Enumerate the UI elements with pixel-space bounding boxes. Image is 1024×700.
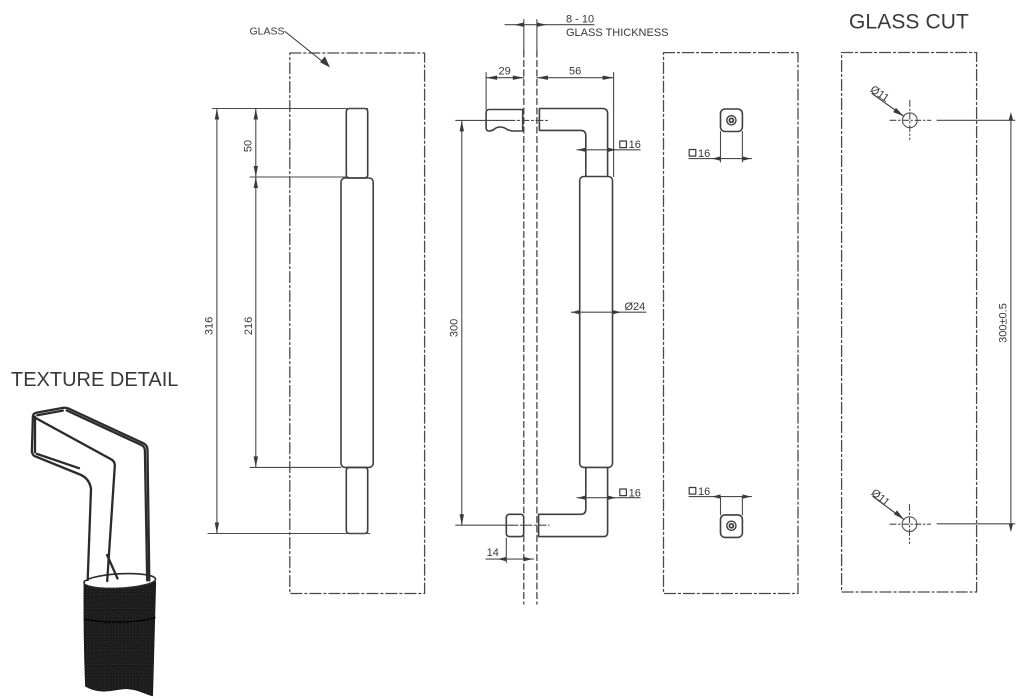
bottom square dim extension lines <box>720 497 722 515</box>
label square 16 (back view top) <box>689 150 696 157</box>
square16 bottom leader <box>577 497 640 499</box>
svg-text:300: 300 <box>448 319 460 337</box>
extension line y=467.4 <box>250 466 341 468</box>
svg-text:16: 16 <box>698 486 710 498</box>
top square dim line + outside arrows <box>689 158 752 160</box>
top screw circles <box>727 116 736 125</box>
collar ellipse <box>84 572 156 590</box>
svg-text:16: 16 <box>629 139 641 151</box>
glass panel dashed outline (front view) <box>290 53 425 594</box>
svg-text:16: 16 <box>698 148 710 160</box>
label square 16 (back view bottom) <box>689 488 696 495</box>
glass left face dashed <box>523 51 525 604</box>
bottom hole leader + arrow <box>873 497 904 520</box>
top hole extension line to dim <box>937 119 1015 121</box>
dim diameter 24 line + arrows <box>571 311 646 313</box>
top clamp plate square <box>721 109 743 132</box>
handle front: bottom pin <box>346 467 367 533</box>
knurled grip body <box>84 581 155 696</box>
GLASS leader line with arrow <box>285 32 328 66</box>
svg-text:GLASS THICKNESS: GLASS THICKNESS <box>566 27 669 39</box>
top leg axis line <box>456 119 508 121</box>
bottom leg (L corner) <box>539 509 608 536</box>
dim 29 extension line <box>485 73 487 110</box>
svg-text:216: 216 <box>243 317 255 335</box>
grip (side view) <box>580 177 613 468</box>
knurl mid band line <box>84 618 155 623</box>
bottom screw circles <box>727 521 736 530</box>
bottom clamp plate square <box>721 515 743 538</box>
svg-text:GLASS CUT: GLASS CUT <box>849 11 969 34</box>
dim 50 vertical line + arrows <box>255 109 257 178</box>
dim 316 vertical line + arrows <box>216 109 218 534</box>
top hole circle <box>902 113 917 128</box>
svg-text:16: 16 <box>629 487 641 499</box>
handle front: top pin <box>346 109 367 179</box>
top hole leader + arrow <box>872 94 904 117</box>
dim 29 line + arrows <box>486 77 524 79</box>
svg-text:TEXTURE DETAIL: TEXTURE DETAIL <box>11 369 178 391</box>
bottom hole circle <box>902 517 917 532</box>
square16 top leader <box>577 149 640 151</box>
bottom neck lines <box>585 467 587 509</box>
svg-text:29: 29 <box>499 66 511 78</box>
bottom hole crosshair <box>909 505 911 544</box>
dim 216 vertical line + arrows <box>255 177 257 467</box>
dim 56 extension line (to grip right edge) <box>613 73 615 177</box>
svg-text:14: 14 <box>487 547 499 559</box>
handle front: grip body <box>341 178 373 467</box>
extension line bottom (y=533.5) <box>208 533 370 535</box>
svg-text:Ø11: Ø11 <box>868 84 891 105</box>
3d handle corner outline <box>32 408 149 581</box>
extension line top (y=108.5) <box>213 108 368 110</box>
bottom leg axis line <box>456 524 511 526</box>
dim 56 line + arrows <box>537 77 614 79</box>
svg-text:50: 50 <box>243 140 255 152</box>
bottom clamp piece <box>506 514 523 536</box>
label square 16 top <box>620 141 627 148</box>
label square 16 bottom <box>620 489 627 496</box>
extension line y=177 <box>250 176 346 178</box>
glass cut dashed outline <box>842 53 977 593</box>
svg-text:300±0.5: 300±0.5 <box>998 303 1010 343</box>
svg-text:8 - 10: 8 - 10 <box>566 14 594 26</box>
svg-text:316: 316 <box>204 317 216 335</box>
top leg right of glass (L corner) <box>539 109 607 177</box>
dim 14 line + outside arrows <box>486 558 534 560</box>
outside arrows <box>1009 112 1013 120</box>
top hole crosshair <box>909 101 911 140</box>
svg-text:Ø24: Ø24 <box>625 301 646 313</box>
back view glass dashed outline <box>664 53 799 594</box>
glass right face dashed <box>536 51 538 604</box>
top square dim extension lines <box>720 132 722 163</box>
bottom square dim line + outside arrows <box>689 496 752 498</box>
svg-text:GLASS: GLASS <box>250 26 285 38</box>
bottom hole extension line to dim <box>937 523 1015 525</box>
svg-text:56: 56 <box>569 66 581 78</box>
dim 8-10 line + outside arrows <box>505 24 594 26</box>
svg-text:Ø11: Ø11 <box>869 487 892 509</box>
glass thickness extension lines <box>523 20 525 52</box>
top clamp piece (behind glass) with notch <box>486 110 523 132</box>
dim 300+-0.5 line <box>1010 120 1012 524</box>
dim 300 line + arrows <box>461 120 463 525</box>
dim 14 extension line <box>505 538 507 563</box>
